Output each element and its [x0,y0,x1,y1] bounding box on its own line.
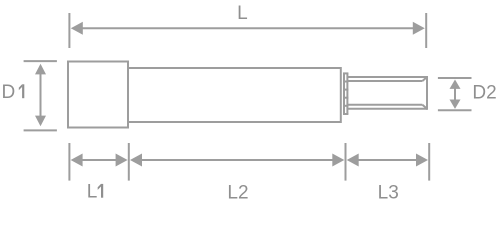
dimension D2 up arrowhead [450,80,461,89]
body rectangle (L2 section) [128,68,341,122]
ladder rung 4 [343,97,348,99]
bottom extension tick at head right [128,143,130,181]
dimension L1 right arrowhead [116,154,128,167]
ladder rung 1 [343,72,348,74]
stud right end face [426,76,428,110]
dimension D1 bottom bar [24,129,57,131]
dimension D1 top bar [24,60,57,62]
dimension L right arrowhead [413,22,425,35]
dimension L3 right arrowhead [416,154,428,167]
dimension L1 line [80,159,117,161]
svg-text:L2: L2 [227,182,248,203]
svg-text:D2: D2 [472,82,496,103]
label L1 digit one [98,184,104,198]
bottom extension tick at stud end [428,143,430,181]
dimension D2 top bar [438,77,472,79]
bottom extension tick at body right [345,143,347,181]
dimension L right extension tick [425,13,427,48]
stud top chamfer diagonal [422,77,427,81]
dimension L2 right arrowhead [332,154,344,167]
ladder rung 5 [343,105,348,107]
dimension L1 left arrowhead [71,154,83,167]
bottom extension tick at head left [68,143,70,181]
label D1 digit one [19,84,25,98]
dimension D2 down arrowhead [450,100,461,109]
stud outer bottom line [347,108,427,110]
dimension D1 down arrowhead [35,116,46,127]
dimension L3 left arrowhead [347,154,359,167]
stud inner bottom thread line [347,104,422,106]
dimension D1 up arrowhead [35,64,46,75]
svg-text:D: D [2,82,16,103]
thread relief ladder left rail [343,73,345,114]
dimension L left arrowhead [71,22,83,35]
ladder rung 2 [343,81,348,83]
stud inner top thread line [347,80,422,82]
head rectangle (D1 section) [68,62,128,128]
svg-text:L3: L3 [378,182,399,203]
dimension D1 arrow shaft [40,74,42,117]
thread relief ladder right rail [346,73,348,114]
dimension L2 line [140,159,335,161]
ladder rung 6 [343,113,348,115]
stud outer top line [347,76,427,78]
svg-text:L: L [237,3,248,24]
dimension L left extension tick [68,13,70,48]
dimension L line [81,27,415,29]
dimension L3 line [357,159,419,161]
dimension D2 bottom bar [438,109,472,111]
dimension D2 arrow shaft [454,88,456,101]
ladder rung 3 [343,89,348,91]
stud bottom chamfer diagonal [422,105,427,109]
dimension L2 left arrowhead [130,154,142,167]
svg-text:L: L [87,182,98,203]
